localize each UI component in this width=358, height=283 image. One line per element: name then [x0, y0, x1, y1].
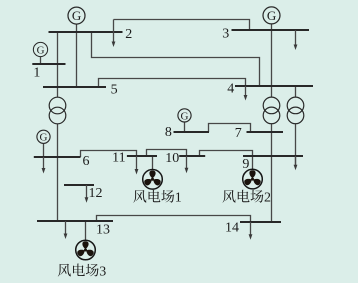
- svg-text:14: 14: [225, 221, 239, 236]
- svg-text:3: 3: [222, 27, 229, 42]
- svg-text:6: 6: [83, 154, 90, 169]
- svg-text:3: 3: [99, 264, 106, 279]
- svg-text:13: 13: [96, 222, 110, 237]
- svg-text:1: 1: [33, 65, 40, 80]
- svg-text:8: 8: [165, 125, 172, 140]
- svg-text:11: 11: [112, 150, 125, 165]
- svg-text:2: 2: [264, 191, 271, 206]
- svg-text:2: 2: [125, 27, 132, 42]
- svg-text:7: 7: [235, 126, 242, 141]
- svg-text:4: 4: [227, 82, 234, 97]
- svg-text:9: 9: [242, 157, 249, 172]
- svg-text:5: 5: [111, 83, 118, 98]
- svg-text:10: 10: [165, 151, 179, 166]
- svg-text:12: 12: [89, 186, 103, 201]
- svg-text:1: 1: [175, 191, 182, 206]
